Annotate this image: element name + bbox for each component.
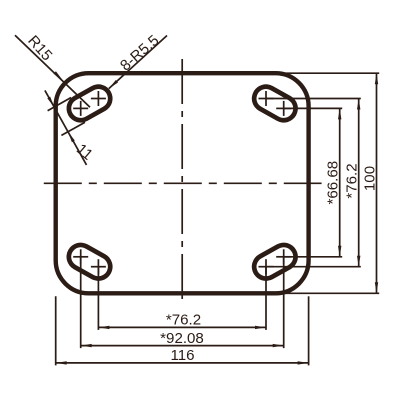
svg-text:*66.68: *66.68 xyxy=(325,161,342,205)
svg-text:100: 100 xyxy=(362,166,379,191)
svg-text:*76.2: *76.2 xyxy=(166,312,201,329)
svg-text:116: 116 xyxy=(170,347,194,364)
svg-text:*92.08: *92.08 xyxy=(160,330,204,347)
svg-text:*76.2: *76.2 xyxy=(344,163,361,198)
